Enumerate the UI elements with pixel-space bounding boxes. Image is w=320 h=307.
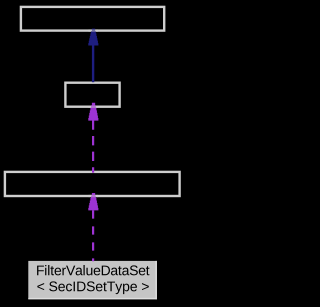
node label line 1: FilterValueDataSet bbox=[37, 265, 149, 275]
border blend over purple tip (box2 bottom) bbox=[89, 105, 99, 107]
template arrow lower head (dashed darkorchid) bbox=[88, 193, 99, 210]
node box 3 (template class, label invisible) bbox=[5, 172, 180, 196]
node label line 2: < SecIDSetType > bbox=[37, 281, 148, 294]
template arrow upper head (dashed darkorchid) bbox=[88, 103, 99, 121]
inheritance arrow shaft bbox=[92, 45, 94, 82]
box 4 bright right edge bbox=[156, 261, 157, 299]
node box 2 (middle base class, label invisible) bbox=[65, 83, 119, 107]
border blend over blue tip (box1 bottom) bbox=[89, 29, 99, 31]
current node box 4 (filled gray) bbox=[28, 261, 157, 299]
inheritance arrow head (solid midnightblue) bbox=[88, 29, 99, 46]
template arrow lower dashed shaft bbox=[92, 210, 94, 261]
node box 1 (top base class, label invisible) bbox=[21, 7, 164, 31]
box 4 bright bottom edge bbox=[28, 298, 157, 299]
template arrow upper dashed shaft bbox=[92, 120, 94, 172]
border blend over purple tip (box3 bottom) bbox=[89, 195, 99, 197]
